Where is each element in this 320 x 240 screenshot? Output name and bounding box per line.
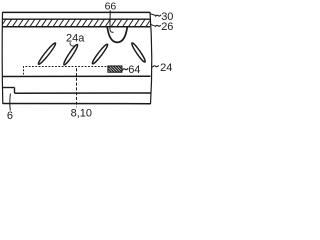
- right border of cell: [150, 12, 152, 104]
- leader line for 66: [110, 10, 114, 32]
- electrode layer 26 bottom line: [2, 26, 150, 28]
- left border of cell: [1, 12, 4, 104]
- leader line for 24a: [70, 42, 75, 46]
- slit structure 64 (hatched box): [108, 66, 122, 72]
- slit 64 hatching: [104, 65, 128, 73]
- svg-text:26: 26: [161, 21, 173, 33]
- svg-text:8,10: 8,10: [71, 108, 92, 120]
- boundary line between 30 and 26: [2, 18, 150, 20]
- bus line 6 right edge: [14, 88, 16, 94]
- dashed leader line for 8,10: [76, 68, 78, 107]
- LC molecule 24a #3: [91, 43, 109, 65]
- substrate surface line (top of 10): [15, 92, 151, 94]
- svg-text:24a: 24a: [66, 33, 85, 45]
- substrate bottom line: [3, 103, 151, 105]
- leader line for 30: [150, 14, 156, 16]
- svg-text:64: 64: [128, 64, 140, 76]
- LC molecule 24a #4 (tilted right of protrusion): [130, 42, 146, 63]
- svg-text:24: 24: [160, 62, 172, 74]
- leader line for 26: [150, 24, 156, 26]
- label 30 with tilde: [155, 15, 161, 17]
- protrusion 66 (cup below electrode): [107, 27, 127, 42]
- leader line for 6: [9, 94, 12, 111]
- LC molecule 24a #1: [37, 42, 57, 66]
- dashed pixel-electrode outline: [24, 67, 108, 75]
- svg-text:6: 6: [7, 110, 13, 120]
- electrode layer 26 hatching: [1, 19, 157, 27]
- LC molecule 24a #2: [62, 43, 79, 65]
- top substrate 30 top line: [3, 11, 151, 13]
- label 24 with tilde: [152, 65, 158, 67]
- label 26 with tilde: [155, 25, 161, 27]
- bottom stack top line (layer over 6): [2, 75, 150, 77]
- bus line 6 top edge: [2, 87, 14, 89]
- label 64 with tilde: [122, 68, 128, 70]
